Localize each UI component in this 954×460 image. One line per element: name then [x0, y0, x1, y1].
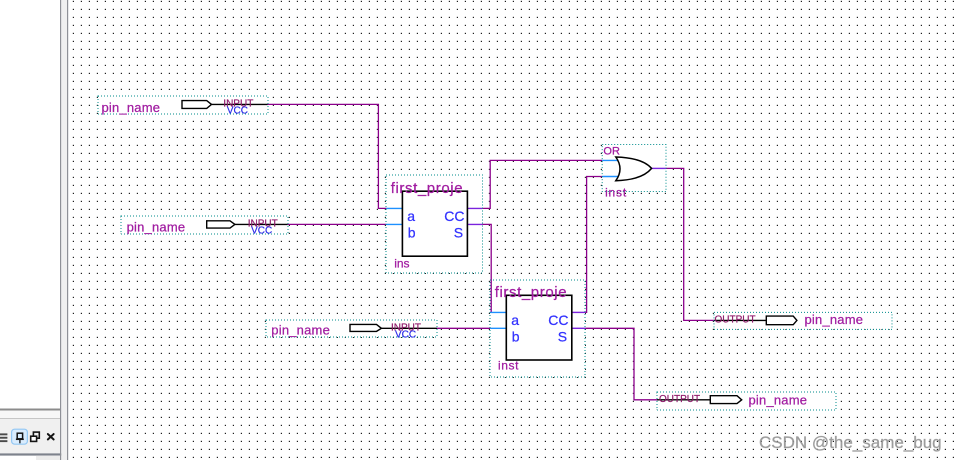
selection box input pin1 [98, 96, 268, 114]
svg-text:ins: ins [394, 256, 409, 270]
block U2 body [506, 295, 572, 360]
blue stub U2.a [490, 311, 506, 313]
left panel bottom border [0, 409, 61, 411]
svg-text:first_proje: first_proje [495, 284, 567, 301]
violet stub U2.CC [570, 311, 585, 313]
output pin2 black lead [657, 399, 710, 401]
white fill under input pin 2 selection [121, 216, 288, 234]
blue stub OR in2 [602, 176, 618, 178]
input pin3 black lead [381, 327, 437, 329]
float (undock) icon [31, 432, 40, 441]
blue stub U2.b [490, 327, 506, 329]
svg-text:first_proje: first_proje [391, 180, 463, 197]
white fill under block U1 selection [386, 175, 483, 273]
vertical splitter [60, 0, 61, 460]
svg-text:VCC: VCC [227, 106, 248, 117]
input pin1 black lead [212, 103, 268, 105]
svg-text:OUTPUT: OUTPUT [659, 394, 700, 405]
output pin1 symbol [766, 316, 797, 325]
blue stub U1.a [386, 207, 402, 209]
hamburger icon [0, 433, 7, 442]
svg-text:a: a [511, 312, 519, 328]
violet stub U2.S [570, 327, 585, 329]
selection box OR gate [602, 145, 666, 192]
svg-text:pin_name: pin_name [102, 100, 161, 115]
svg-text:b: b [408, 224, 416, 240]
dock titlebar background [0, 411, 61, 454]
input pin2 black lead [235, 223, 288, 225]
svg-text:pin_name: pin_name [805, 312, 864, 327]
white fill under OR gate selection [602, 145, 666, 192]
input pin3 symbol [350, 324, 381, 331]
output pin2 symbol [710, 396, 741, 404]
selection box block U1 [386, 175, 483, 273]
input pin1 symbol [182, 101, 212, 109]
input pin2 symbol [207, 221, 235, 228]
white fill under output pin 2 selection [657, 392, 836, 410]
selection box output pin2 [657, 392, 836, 410]
svg-text:VCC: VCC [251, 226, 272, 237]
svg-text:OUTPUT: OUTPUT [715, 315, 756, 326]
svg-text:pin_name: pin_name [749, 393, 808, 408]
wire net8: U2.S to output pin2 [585, 328, 657, 400]
selection box input pin3 [266, 320, 437, 337]
wire net6: U2.CC to OR input2 [585, 177, 602, 313]
wire net1: input pin1 to U1.a [268, 104, 387, 208]
svg-text:pin_name: pin_name [127, 220, 186, 235]
wire net3: input pin3 to U2.b [437, 327, 490, 329]
OR gate U3 body [616, 157, 652, 181]
selection box output pin1 [714, 312, 892, 329]
wire net7: OR output to output pin1 [666, 168, 714, 320]
pin icon [16, 433, 24, 443]
violet stub U1.S [466, 223, 482, 225]
dock titlebar bottom border [0, 453, 62, 455]
svg-text:pin_name: pin_name [271, 323, 330, 338]
wire net4: U1.CC to OR input1 [482, 160, 602, 208]
blue stub OR in1 [602, 159, 618, 161]
blue stub U1.b [386, 223, 402, 225]
wire net2: input pin2 to U1.b [288, 223, 387, 225]
selection box block U2 [490, 280, 585, 377]
block U1 body [402, 191, 467, 256]
svg-text:b: b [512, 328, 520, 344]
svg-text:inst: inst [605, 185, 627, 199]
svg-text:S: S [558, 329, 567, 345]
white fill under output pin 1 selection [714, 312, 892, 329]
svg-text:CSDN @the_same_bug: CSDN @the_same_bug [759, 433, 942, 452]
svg-text:CC: CC [548, 312, 568, 328]
violet stub U1.CC [466, 207, 482, 209]
svg-text:S: S [454, 225, 463, 241]
selection box input pin2 [121, 216, 288, 234]
wire net5: U1.S to U2.a [482, 224, 491, 312]
white fill under input pin 1 selection [98, 96, 268, 114]
output pin1 black lead [714, 319, 766, 321]
svg-text:CC: CC [444, 208, 464, 224]
close x icon [48, 434, 54, 440]
left panel white [0, 0, 60, 460]
tab strip below [36, 456, 61, 460]
white fill under input pin 3 selection [266, 320, 437, 337]
violet stub OR output [652, 167, 666, 169]
svg-text:inst: inst [498, 358, 519, 372]
svg-text:VCC: VCC [395, 330, 416, 341]
svg-text:a: a [407, 208, 415, 224]
svg-text:OR: OR [603, 146, 620, 158]
white fill under block U2 selection [490, 280, 585, 377]
dock titlebar top border [0, 418, 61, 419]
pin button highlighted [12, 429, 28, 444]
